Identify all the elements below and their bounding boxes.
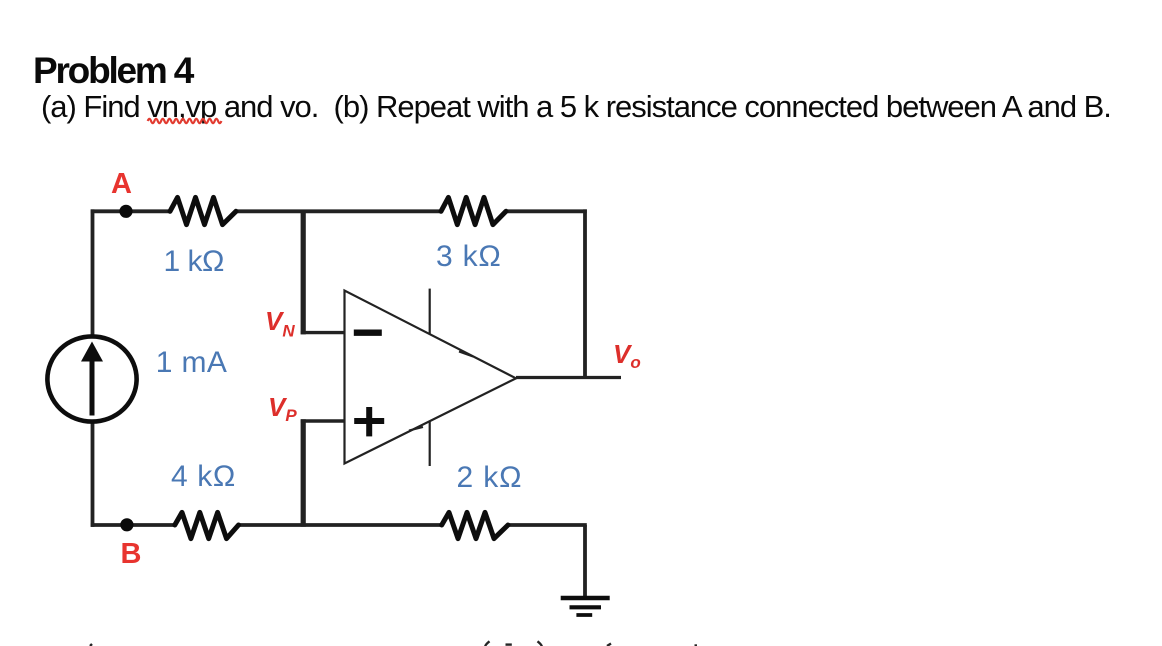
current source I1 arrow: [81, 342, 103, 416]
wire VN input horizontal: [301, 331, 345, 334]
label R3 value 4 kOhm: [171, 460, 236, 494]
label R4 value 2 kOhm: [457, 461, 523, 495]
label node A: [111, 168, 132, 201]
op-amp minus sign: [354, 330, 382, 336]
problem statement line: [41, 89, 1111, 125]
op-amp top power pin: [429, 289, 431, 334]
resistor R2 3k zigzag: [441, 197, 506, 224]
label source value 1 mA: [156, 346, 228, 380]
wire left vertical: [91, 209, 95, 527]
label R2 value 3 kOhm: [436, 240, 502, 274]
label node VN: [265, 306, 295, 342]
spellcheck squiggle under vn,vp: [148, 119, 222, 123]
wire VN junction vertical: [301, 210, 306, 335]
title "Problem 4": [33, 50, 192, 92]
resistor R4 2k zigzag: [442, 512, 508, 538]
wire VP input horizontal: [301, 419, 345, 422]
current source I1 1mA circle: [47, 336, 136, 421]
wire feedback right vertical: [583, 209, 587, 377]
op-amp edge tick top: [459, 352, 473, 357]
wire output horizontal: [516, 376, 621, 379]
wire VP junction vertical: [301, 419, 306, 527]
op-amp U1 triangle: [345, 291, 517, 464]
wire bottom horizontal: [91, 523, 587, 527]
label output Vo: [613, 339, 641, 373]
label R1 value 1 kOhm: [164, 245, 224, 279]
op-amp plus sign: [354, 407, 384, 436]
wire ground vertical: [583, 525, 587, 598]
resistor R3 4k zigzag: [175, 512, 239, 538]
node A junction dot: [119, 205, 132, 218]
node B junction dot: [120, 518, 133, 531]
label node B: [121, 538, 142, 571]
op-amp bottom power pin: [429, 421, 431, 466]
label node VP: [268, 392, 297, 426]
wire top horizontal: [91, 209, 587, 213]
resistor R1 1k zigzag: [170, 197, 236, 224]
ground symbol: [561, 598, 610, 615]
op-amp edge tick bottom: [409, 427, 423, 431]
